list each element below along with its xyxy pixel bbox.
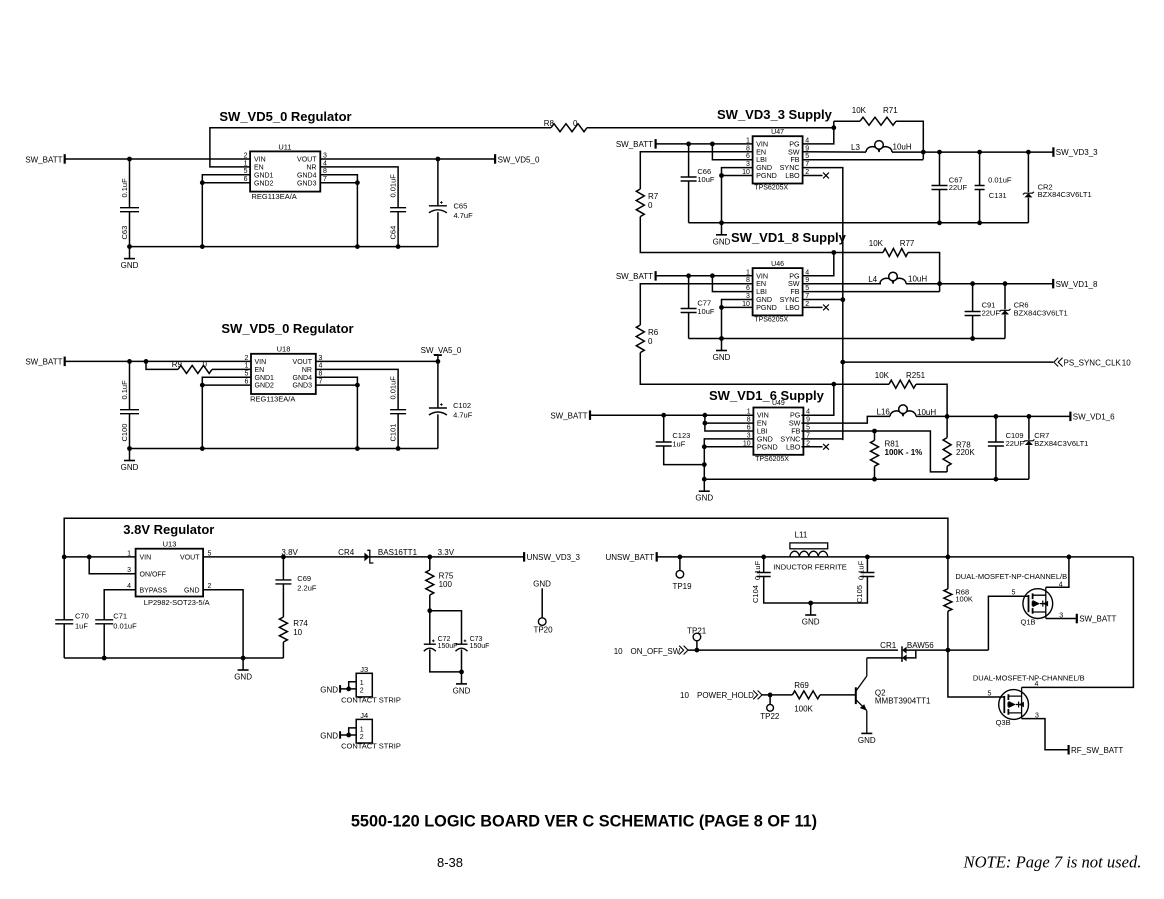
wire R69 to Q2 base [820, 694, 856, 696]
svg-text:GND: GND [713, 237, 731, 246]
svg-text:L16: L16 [877, 408, 891, 417]
junction [977, 150, 982, 155]
transistor Q2 MMBT3904TT1 NPN [856, 658, 931, 733]
svg-text:GND4: GND4 [293, 375, 313, 382]
wire U13 VIN [64, 556, 135, 558]
wire U49 FB node [801, 431, 947, 472]
inductor L3 10uH [851, 141, 912, 153]
svg-text:VOUT: VOUT [293, 359, 313, 366]
svg-text:NR: NR [306, 165, 316, 172]
svg-text:0.1uF: 0.1uF [120, 178, 129, 198]
junction [1027, 414, 1032, 419]
svg-text:GND4: GND4 [297, 172, 317, 179]
svg-text:NR: NR [302, 367, 312, 374]
test point TP20 to GND [533, 580, 553, 635]
svg-text:BZX84C3V6LT1: BZX84C3V6LT1 [1014, 308, 1068, 317]
capacitor C69 2.2uF [275, 557, 316, 617]
svg-text:SW_VD1_6: SW_VD1_6 [1073, 413, 1115, 422]
svg-text:0: 0 [203, 360, 208, 369]
svg-text:10: 10 [614, 647, 623, 656]
wire U46 PG to pullup node [803, 253, 834, 276]
junction [831, 382, 836, 387]
junction [127, 446, 132, 451]
junction [831, 250, 836, 255]
svg-text:10uF: 10uF [697, 175, 715, 184]
svg-text:4.7uF: 4.7uF [453, 410, 473, 419]
junction [937, 281, 942, 286]
svg-text:R9: R9 [172, 360, 183, 369]
svg-text:GND3: GND3 [293, 383, 313, 390]
capacitor C67 22UF [932, 152, 968, 223]
capacitor C109 22UF [988, 416, 1024, 479]
net SW_BATT terminal (U11) [25, 154, 64, 164]
svg-text:4.7uF: 4.7uF [454, 211, 474, 220]
capacitor C77 10uF [681, 276, 715, 339]
svg-text:TP22: TP22 [760, 712, 780, 721]
svg-text:C104: C104 [751, 585, 760, 603]
svg-text:SW_VD3_3: SW_VD3_3 [1056, 148, 1098, 157]
junction [702, 444, 707, 449]
junction [710, 142, 715, 147]
net UNSW_BATT terminal [605, 552, 656, 562]
junction [102, 656, 107, 661]
junction [427, 608, 432, 613]
svg-text:GND: GND [802, 618, 820, 627]
net ON_OFF_SW off-page connector [614, 646, 688, 656]
svg-text:2.2uF: 2.2uF [297, 584, 317, 593]
wire POWER_HOLD to R69 [762, 694, 792, 696]
wire GND rail (U18) [130, 448, 438, 450]
svg-text:1uF: 1uF [75, 622, 88, 631]
capacitor C104 0.1uF [751, 557, 811, 603]
wire UNSW_BATT feed to U13 (top run) [64, 518, 948, 557]
svg-text:1: 1 [244, 363, 248, 370]
wire GND rail (U47) [689, 222, 1029, 224]
svg-text:150uF: 150uF [438, 643, 458, 650]
junction [281, 555, 286, 560]
wire Q1B source to SW_BATT [1046, 618, 1077, 620]
capacitor C64 0.01uF [388, 174, 406, 247]
svg-text:SW_VD1_8 Supply: SW_VD1_8 Supply [731, 230, 847, 245]
wire R6 to PG rail of U49 [640, 353, 834, 385]
svg-text:C64: C64 [388, 226, 397, 240]
zener diode CR2 BZX84C3V6LT1 [1023, 152, 1092, 223]
svg-text:GND2: GND2 [254, 180, 274, 187]
svg-text:100: 100 [439, 580, 453, 589]
svg-text:GND1: GND1 [255, 375, 275, 382]
svg-text:R6: R6 [648, 328, 659, 337]
svg-text:PGND: PGND [756, 303, 777, 312]
ground (C104/C105) [802, 603, 820, 627]
junction [703, 413, 708, 418]
junction [1003, 281, 1008, 286]
diode CR1 BAW56 dual [880, 641, 948, 662]
ground (U13 block) [234, 658, 252, 682]
wire U46 FB to output [803, 291, 940, 293]
junction [945, 414, 950, 419]
junction [686, 273, 691, 278]
svg-text:L3: L3 [851, 143, 860, 152]
wire U13 ON/OFF tie to VIN [89, 557, 135, 574]
inductor L4 10uH [868, 272, 927, 284]
capacitor C105 0.1uF [811, 557, 875, 603]
svg-text:BYPASS: BYPASS [140, 587, 168, 594]
junction [702, 477, 707, 482]
test point TP21 [687, 626, 707, 650]
svg-text:BAS16TT1: BAS16TT1 [378, 548, 418, 557]
ground (U11 block) [121, 247, 139, 271]
capacitor C72 150uF polarized [424, 611, 462, 672]
svg-text:R74: R74 [293, 619, 308, 628]
inductor L11 INDUCTOR FERRITE [773, 531, 847, 572]
svg-text:C100: C100 [120, 424, 129, 442]
svg-text:SW_VA5_0: SW_VA5_0 [421, 346, 462, 355]
svg-text:10K: 10K [869, 239, 884, 248]
wire Q3B drain to UNSW_BATT [1022, 557, 1134, 688]
wire U46 LBO no-connect [803, 306, 823, 308]
svg-text:1uF: 1uF [672, 439, 685, 448]
svg-text:LBO: LBO [785, 171, 800, 180]
svg-text:220K: 220K [956, 448, 975, 457]
svg-text:1: 1 [360, 726, 364, 733]
junction [678, 555, 683, 560]
svg-text:DUAL-MOSFET-NP-CHANNEL/B: DUAL-MOSFET-NP-CHANNEL/B [955, 572, 1067, 581]
svg-text:EN: EN [255, 367, 265, 374]
svg-text:100K - 1%: 100K - 1% [885, 448, 923, 457]
junction [703, 421, 708, 426]
svg-text:0.1uF: 0.1uF [857, 560, 866, 580]
capacitor C131 0.01uF [975, 152, 1012, 223]
wire U46 SW to L4 [803, 283, 881, 285]
svg-text:22UF: 22UF [1006, 439, 1025, 448]
wire SW_BATT to U49 VIN [590, 414, 753, 416]
wire U18 GND4/GND3 to rail [316, 377, 358, 448]
wire U47 LBO no-connect [803, 175, 823, 177]
connector J4 CONTACT STRIP [320, 711, 401, 751]
junction [661, 413, 666, 418]
net SW_VA5_0 stub [421, 346, 462, 361]
svg-text:R251: R251 [906, 371, 926, 380]
svg-text:SW_VD5_0 Regulator: SW_VD5_0 Regulator [219, 109, 351, 124]
svg-text:GND: GND [184, 587, 200, 594]
svg-text:VIN: VIN [255, 359, 267, 366]
wire U11 GND1/GND2 to rail [202, 175, 250, 247]
wire U46 LBI to SW_BATT [712, 276, 752, 292]
svg-text:GND: GND [453, 686, 471, 695]
svg-text:VOUT: VOUT [180, 555, 200, 562]
wire U11 VOUT to SW_VD5_0 [320, 158, 495, 160]
svg-text:10K: 10K [875, 371, 890, 380]
junction [200, 180, 205, 185]
wire Q3B source to RF_SW_BATT [1022, 719, 1069, 750]
resistor R7 0 [636, 189, 658, 217]
wire SW_BATT to U46 VIN [656, 275, 753, 277]
resistor R75 100 [426, 557, 454, 611]
wire U18 NR to C101 [316, 369, 398, 409]
junction [970, 336, 975, 341]
junction [1026, 150, 1031, 155]
junction [994, 414, 999, 419]
capacitor C71 0.01uF [95, 612, 137, 659]
wire U13 GND pin to rail [203, 590, 243, 658]
svg-text:R69: R69 [794, 681, 809, 690]
capacitor C66 10uF [681, 144, 715, 223]
svg-text:5: 5 [1012, 589, 1016, 596]
net SW_BATT terminal (U47) [616, 139, 656, 149]
svg-text:100K: 100K [955, 595, 973, 604]
svg-text:3.8V Regulator: 3.8V Regulator [123, 522, 214, 537]
junction [1067, 555, 1072, 560]
svg-text:GND: GND [320, 731, 338, 740]
wire L3 to SW_VD3_3 [892, 151, 1053, 153]
junction [872, 477, 877, 482]
svg-text:10: 10 [293, 628, 302, 637]
junction [436, 157, 441, 162]
junction [87, 555, 92, 560]
junction [937, 150, 942, 155]
capacitor C73 150uF polarized [456, 636, 490, 672]
svg-text:SW_VD1_6 Supply: SW_VD1_6 Supply [709, 388, 825, 403]
svg-text:C101: C101 [388, 424, 397, 442]
zener diode CR6 BZX84C3V6LT1 [1000, 284, 1068, 339]
svg-text:2: 2 [244, 152, 248, 159]
svg-text:GND: GND [858, 736, 876, 745]
wire U13 BYPASS to C71 [104, 590, 135, 620]
wire U47 SW to L3 [803, 151, 866, 153]
junction [396, 446, 401, 451]
resistor R71 10K [834, 106, 924, 159]
svg-text:R8: R8 [544, 119, 555, 128]
junction [840, 360, 845, 365]
svg-text:0: 0 [648, 337, 653, 346]
resistor R6 0 [636, 325, 658, 353]
svg-text:J4: J4 [360, 711, 368, 720]
capacitor C101 0.01uF [388, 376, 406, 449]
svg-text:10uH: 10uH [908, 275, 927, 284]
wire U49 PG to pullup node [801, 384, 833, 415]
svg-text:SW_VD5_0: SW_VD5_0 [498, 155, 540, 164]
svg-text:SW_BATT: SW_BATT [25, 358, 62, 367]
svg-text:REG113EA/A: REG113EA/A [252, 192, 297, 201]
svg-text:UNSW_BATT: UNSW_BATT [605, 553, 654, 562]
svg-text:5: 5 [988, 690, 992, 697]
svg-text:U46: U46 [771, 261, 784, 268]
net SW_VD1_8 terminal [1053, 279, 1098, 289]
junction [994, 477, 999, 482]
wire PS_SYNC_CLK [843, 361, 1054, 363]
svg-text:BZX84C3V6LT1: BZX84C3V6LT1 [1034, 439, 1088, 448]
junction [719, 336, 724, 341]
transistor Q1B dual MOSFET P-channel [1012, 581, 1064, 626]
svg-text:BAW56: BAW56 [907, 641, 934, 650]
svg-text:PGND: PGND [756, 171, 777, 180]
junction [427, 555, 432, 560]
wire CR4 to UNSW_VD3_3 [370, 556, 524, 558]
svg-text:Q1B: Q1B [1021, 617, 1036, 626]
IC U13 LP2982-SOT23-5/A [127, 540, 211, 607]
wire U46 EN to R6 [640, 284, 752, 325]
svg-text:TPS6205X: TPS6205X [754, 185, 788, 192]
svg-text:C70: C70 [75, 612, 89, 621]
wire U49 SW to L16 [801, 416, 890, 423]
wire SW_BATT to U47 VIN [656, 143, 753, 145]
junction [127, 157, 132, 162]
wire R8 to U47 PG junction [587, 127, 834, 129]
svg-text:0.01uF: 0.01uF [388, 376, 397, 400]
junction [355, 244, 360, 249]
svg-text:C71: C71 [113, 612, 127, 621]
svg-text:0.01uF: 0.01uF [988, 175, 1012, 184]
wire Q1B gate [988, 596, 1028, 650]
svg-text:TP19: TP19 [672, 582, 692, 591]
net SW_BATT output terminal [1077, 614, 1117, 624]
svg-text:GND: GND [713, 353, 731, 362]
wire L4 to SW_VD1_8 [906, 283, 1053, 285]
zener diode CR7 BZX84C3V6LT1 [1023, 416, 1088, 479]
wire U11 EN to PG rail [210, 128, 551, 167]
capacitor C70 1uF [55, 557, 89, 658]
svg-text:EN: EN [254, 165, 264, 172]
net POWER_HOLD off-page connector [680, 691, 762, 701]
junction [946, 648, 951, 653]
svg-text:10uF: 10uF [697, 307, 715, 316]
svg-text:REG113EA/A: REG113EA/A [250, 395, 295, 404]
svg-text:0: 0 [573, 119, 578, 128]
svg-text:22UF: 22UF [949, 183, 968, 192]
resistor R74 10 [279, 617, 308, 658]
svg-text:CONTACT STRIP: CONTACT STRIP [341, 696, 401, 705]
diode CR4 BAS16TT1 [338, 548, 417, 563]
test point TP19 [672, 557, 692, 591]
svg-text:TP20: TP20 [533, 626, 553, 635]
wire L16 to SW_VD1_6 [916, 415, 1070, 417]
net SW_BATT terminal (U49) [550, 410, 590, 420]
junction [241, 656, 246, 661]
svg-text:2: 2 [244, 355, 248, 362]
ground (U47 block) [713, 223, 731, 247]
capacitor C100 0.1uF [120, 361, 139, 448]
wire U18 GND1/GND2 to rail [202, 377, 251, 448]
wire Q1B drain to UNSW_BATT [1046, 557, 1069, 587]
resistor R69 100K [792, 681, 820, 713]
net SW_BATT terminal (U18) [25, 357, 64, 367]
svg-text:SW_BATT: SW_BATT [616, 140, 653, 149]
svg-text:INDUCTOR FERRITE: INDUCTOR FERRITE [773, 562, 847, 571]
wire U13 VOUT 3.8V [203, 556, 366, 558]
wire to C72/C73 pair [430, 611, 462, 644]
junction [355, 383, 360, 388]
capacitor C102 4.7uF polarized [429, 361, 473, 448]
svg-text:U18: U18 [277, 345, 291, 354]
svg-text:DUAL-MOSFET-NP-CHANNEL/B: DUAL-MOSFET-NP-CHANNEL/B [973, 674, 1085, 683]
net PS_SYNC_CLK off-page connector [1054, 358, 1131, 368]
svg-text:SW_BATT: SW_BATT [616, 272, 653, 281]
wire U18 VOUT [316, 360, 438, 362]
wire U47 LBI to SW_BATT [712, 144, 752, 160]
no-connect X (U47 LBO) [823, 173, 829, 179]
wire SW_BATT to U11 VIN [65, 158, 250, 160]
wire U49 SYNC to chain [801, 438, 842, 440]
svg-text:GND: GND [533, 580, 551, 589]
svg-text:CR1: CR1 [880, 641, 897, 650]
ground (Q2 emitter) [858, 733, 876, 745]
svg-text:TPS6205X: TPS6205X [754, 316, 788, 323]
svg-text:C69: C69 [297, 574, 311, 583]
junction [127, 244, 132, 249]
svg-text:0.01uF: 0.01uF [388, 174, 397, 198]
svg-text:0: 0 [648, 201, 653, 210]
svg-text:SW_VD3_3 Supply: SW_VD3_3 Supply [717, 107, 833, 122]
ground (U18 block) [121, 449, 139, 473]
svg-text:GND: GND [234, 673, 252, 682]
wire Q2 collector to CR1 [867, 657, 902, 659]
resistor R9 0 in U18 EN [146, 360, 251, 373]
svg-text:150uF: 150uF [470, 643, 490, 650]
svg-text:U47: U47 [771, 129, 784, 136]
svg-text:LP2982-SOT23-5/A: LP2982-SOT23-5/A [144, 598, 210, 607]
svg-text:VIN: VIN [254, 157, 266, 164]
svg-text:5500-120 LOGIC BOARD VER C SCH: 5500-120 LOGIC BOARD VER C SCHEMATIC (PA… [351, 813, 817, 831]
junction [831, 125, 836, 130]
junction [686, 142, 691, 147]
svg-text:VIN: VIN [140, 555, 152, 562]
svg-text:LBO: LBO [786, 442, 801, 451]
junction [436, 359, 441, 364]
svg-text:VOUT: VOUT [297, 157, 317, 164]
svg-text:GND3: GND3 [297, 180, 317, 187]
junction [946, 555, 951, 560]
junction [970, 281, 975, 286]
net SW_BATT terminal (U46) [616, 271, 656, 281]
svg-text:ON/OFF: ON/OFF [140, 571, 166, 578]
wire GND rail (U46) [689, 338, 1005, 340]
svg-text:ON_OFF_SW: ON_OFF_SW [631, 647, 681, 656]
capacitor C91 22UF [965, 284, 1001, 339]
svg-text:L11: L11 [795, 531, 808, 540]
svg-text:J3: J3 [360, 665, 368, 674]
junction [144, 359, 149, 364]
resistor R77 10K [834, 239, 940, 292]
svg-text:UNSW_VD3_3: UNSW_VD3_3 [527, 553, 581, 562]
IC U11 REG113EA/A [244, 142, 327, 201]
net SW_VD1_6 terminal [1070, 412, 1115, 422]
inductor L16 10uH [877, 405, 937, 417]
wire UNSW_BATT rail [657, 556, 1134, 558]
svg-text:10uH: 10uH [893, 143, 912, 152]
junction [702, 462, 707, 467]
junction [719, 173, 724, 178]
junction [937, 220, 942, 225]
junction [355, 446, 360, 451]
net RF_SW_BATT terminal [1069, 745, 1124, 755]
svg-text:TPS6205X: TPS6205X [755, 456, 789, 463]
capacitor C123 1uF [656, 415, 705, 464]
wire U11 GND4/GND3 to rail [320, 175, 357, 247]
svg-text:GND1: GND1 [254, 172, 274, 179]
junction [200, 446, 205, 451]
svg-text:MMBT3904TT1: MMBT3904TT1 [875, 696, 931, 705]
no-connect X (U49 LBO) [823, 444, 829, 450]
test point TP22 [760, 695, 780, 721]
wire U47 GND/PGND [722, 168, 753, 223]
svg-text:RF_SW_BATT: RF_SW_BATT [1071, 746, 1123, 755]
wire U11 NR to C64 [320, 167, 398, 207]
svg-text:LBO: LBO [785, 303, 800, 312]
svg-text:NOTE: Page 7 is not used.: NOTE: Page 7 is not used. [963, 853, 1142, 872]
svg-text:10K: 10K [852, 106, 867, 115]
junction [127, 359, 132, 364]
wire U46 GND/PGND [722, 300, 753, 339]
